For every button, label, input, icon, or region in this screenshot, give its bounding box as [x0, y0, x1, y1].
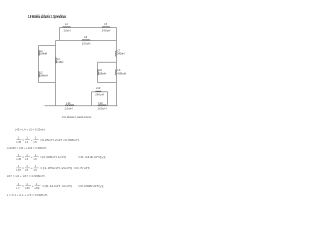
svg-text:1.0mH: 1.0mH: [64, 107, 72, 111]
wire L9 vertical: [97, 62, 99, 82]
svg-text:L9: L9: [34, 157, 38, 161]
svg-text:=: =: [22, 155, 24, 159]
svg-text:=: =: [22, 138, 24, 142]
inductor L1: [39, 49, 48, 56]
svg-text:L45 = L4 + L5 = 0.25mH;: L45 = L4 + L5 = 0.25mH;: [15, 128, 46, 132]
svg-text:L5: L5: [34, 140, 38, 144]
inductor L3: [56, 57, 64, 64]
formula F5 (fractions): [16, 164, 90, 172]
formula F7 (fractions): [16, 182, 104, 190]
svg-text:L4: L4: [65, 22, 68, 26]
svg-text:L11: L11: [66, 101, 71, 105]
wire L8 horizontal: [56, 40, 117, 42]
svg-text:1.9 Modeliu užduotis 2. Sprend: 1.9 Modeliu užduotis 2. Sprendimas: [28, 14, 66, 20]
svg-text:L4: L4: [25, 140, 29, 144]
svg-text:L67 = L6 + L67 = 0.698mH;: L67 = L6 + L67 = 0.698mH;: [7, 174, 46, 178]
svg-text:=(0.308mH·1mH): =(0.308mH·1mH): [40, 155, 66, 159]
svg-text:L67: L67: [16, 168, 21, 172]
svg-text:0.06mH: 0.06mH: [98, 71, 106, 75]
svg-text:L7: L7: [16, 186, 20, 190]
svg-text:0.06H: 0.06H: [56, 60, 63, 64]
inductor L10: [95, 86, 104, 97]
wire L10 right vertical: [107, 92, 109, 106]
inductor L6: [116, 68, 127, 75]
svg-text:+: +: [31, 166, 33, 170]
svg-text:240uH: 240uH: [117, 51, 125, 55]
inductor L4: [63, 22, 71, 32]
svg-text:L = 0.1 + 0.1 + 2.5 = 0.598mH;: L = 0.1 + 0.1 + 2.5 = 0.598mH;: [7, 193, 48, 197]
svg-text:4.89mH: 4.89mH: [117, 71, 126, 75]
svg-text:1.9.1 Modelio C pradinė schema: 1.9.1 Modelio C pradinė schema: [62, 115, 92, 119]
svg-text:240uH: 240uH: [95, 93, 104, 97]
svg-text:=0.098mH(y);: =0.098mH(y);: [78, 184, 105, 188]
wire left tap: [39, 45, 56, 47]
svg-text:0.64mH: 0.64mH: [39, 73, 48, 77]
formula F2 (fractions): [16, 136, 79, 144]
svg-text:100uH: 100uH: [82, 41, 91, 45]
svg-text:L12345 = L45 + L123 = 0.308mH;: L12345 = L45 + L123 = 0.308mH;: [7, 146, 47, 150]
svg-text:=0.25mH·2mH =0.058mH;: =0.25mH·2mH =0.058mH;: [40, 138, 80, 142]
svg-text:=(1.05mH·2mH) =0.7mH;: =(1.05mH·2mH) =0.7mH;: [40, 166, 91, 170]
wire left bottom: [39, 82, 56, 84]
svg-text:L9: L9: [34, 168, 38, 172]
inductor L7: [116, 48, 125, 56]
svg-text:L5: L5: [104, 22, 107, 26]
svg-text:L45: L45: [16, 157, 21, 161]
svg-text:L45: L45: [16, 140, 21, 144]
svg-text:L6: L6: [25, 168, 29, 172]
inductor L12: [97, 101, 106, 111]
svg-text:+: +: [31, 138, 33, 142]
wire loop bottom: [98, 82, 117, 84]
svg-text:=: =: [22, 166, 24, 170]
inductor L11: [64, 101, 73, 111]
wire left vertical: [38, 46, 40, 83]
wire right vertical: [115, 28, 117, 106]
svg-text:L12: L12: [98, 101, 103, 105]
inductor L9: [98, 68, 106, 75]
svg-text:+: +: [32, 184, 34, 188]
wire L10 left vertical: [91, 92, 93, 106]
svg-text:+: +: [31, 155, 33, 159]
wire bottom rail: [45, 105, 118, 107]
wire loop top: [98, 61, 117, 63]
wire top-left vertical: [58, 28, 60, 41]
svg-text:L10: L10: [96, 86, 101, 90]
svg-text:0.24mH: 0.24mH: [39, 52, 47, 56]
inductor L5: [102, 22, 111, 32]
inductor L2: [39, 71, 48, 78]
svg-text:10uH: 10uH: [63, 29, 70, 33]
wire top: [59, 27, 116, 29]
wire L10 horizontal: [92, 91, 108, 93]
svg-text:240uH: 240uH: [102, 29, 111, 33]
inductor L8: [82, 35, 91, 45]
wire L3 vertical: [55, 41, 57, 106]
formula F4 (fractions): [16, 153, 106, 161]
svg-text:=(0.11mH·1mH): =(0.11mH·1mH): [42, 184, 72, 188]
svg-text:L56: L56: [25, 186, 30, 190]
svg-text:L89: L89: [35, 186, 40, 190]
svg-text:160uH: 160uH: [97, 107, 106, 111]
svg-text:=: =: [22, 184, 24, 188]
svg-text:L4: L4: [25, 157, 29, 161]
svg-text:L8: L8: [84, 35, 87, 39]
svg-text:=0.113mH(y);: =0.113mH(y);: [78, 155, 107, 159]
